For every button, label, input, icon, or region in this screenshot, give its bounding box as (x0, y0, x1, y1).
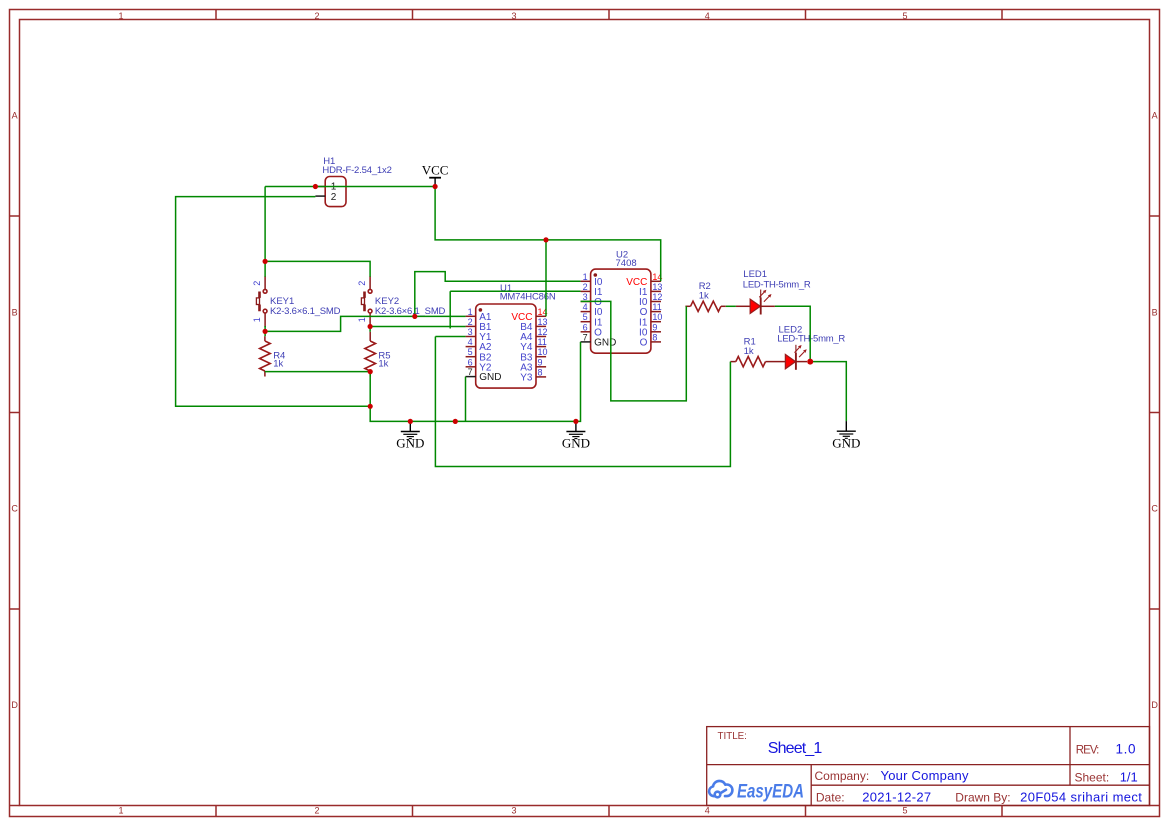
svg-text:4: 4 (705, 805, 710, 815)
svg-text:3: 3 (583, 292, 588, 302)
svg-text:9: 9 (652, 322, 657, 332)
svg-text:O: O (640, 338, 648, 349)
U2 pin 13 (I1) (639, 282, 662, 298)
svg-text:GND: GND (594, 338, 616, 349)
svg-text:2: 2 (331, 192, 337, 203)
svg-text:2: 2 (314, 11, 319, 21)
wire VCC rail top (265, 186, 435, 188)
svg-text:LED-TH-5mm_R: LED-TH-5mm_R (743, 279, 811, 290)
EasyEDA logo cloud (709, 781, 732, 797)
svg-text:4: 4 (705, 11, 710, 21)
U2 pin 12 (I0) (639, 292, 662, 308)
junction H1 pin2 rail to GND bus (368, 404, 373, 409)
wire branch to KEY2 pin2 (265, 261, 370, 276)
svg-text:7: 7 (583, 332, 588, 342)
junction at H1 pin1 / VCC wire (313, 184, 318, 189)
U2 pin 4 (I0) (581, 302, 603, 318)
svg-text:5: 5 (902, 805, 907, 815)
svg-text:2: 2 (468, 317, 473, 327)
wire U1 pin7 GND drop (465, 377, 467, 422)
svg-text:MM74HC86N: MM74HC86N (500, 292, 556, 303)
svg-text:12: 12 (652, 292, 662, 302)
svg-text:6: 6 (583, 322, 588, 332)
svg-text:1: 1 (252, 317, 262, 322)
ground GND3 (832, 421, 860, 450)
svg-text:1: 1 (357, 317, 367, 322)
resistor R5 (365, 332, 391, 377)
title block outline (707, 727, 1150, 806)
U2 pin 9 (I0) (639, 322, 661, 338)
U2 pin 7 (GND) (581, 332, 617, 348)
wire VCC symbol down to rail y240 and to U2 pin14 (435, 187, 661, 282)
frame ruler ticks left (10, 216, 20, 806)
ground GND1 (396, 421, 424, 450)
svg-text:1k: 1k (699, 290, 709, 301)
svg-text:3: 3 (511, 11, 516, 21)
U1 pin 5 (B2) (466, 347, 492, 363)
svg-text:8: 8 (652, 332, 657, 342)
U2 pin 6 (O) (581, 322, 603, 338)
svg-text:8: 8 (538, 367, 543, 377)
svg-text:EasyEDA: EasyEDA (737, 782, 804, 803)
U2 pin 11 (O) (640, 302, 662, 318)
wire node A to U2 pin1 (I0) (415, 272, 581, 317)
svg-text:5: 5 (468, 347, 473, 357)
U2 pin 3 (O) (581, 292, 603, 308)
svg-text:1k: 1k (378, 358, 388, 369)
svg-text:5: 5 (583, 312, 588, 322)
ground GND2 (562, 421, 590, 450)
H1 pin 2 (315, 195, 325, 197)
svg-text:K2-3.6×6.1_SMD: K2-3.6×6.1_SMD (270, 306, 341, 317)
svg-text:HDR-F-2.54_1x2: HDR-F-2.54_1x2 (322, 165, 392, 176)
svg-text:1.0: 1.0 (1116, 742, 1136, 757)
resistor R2 (685, 281, 725, 311)
svg-text:Sheet:: Sheet: (1075, 770, 1110, 784)
wire H1 pin2 to left rail (176, 197, 371, 407)
wire U1 pin3 (Y1) to R1 (435, 337, 730, 467)
svg-text:10: 10 (652, 312, 662, 322)
wire VCC branch to U1 pin14 (545, 240, 547, 316)
U1 pin 13 (B4) (520, 317, 547, 333)
svg-text:12: 12 (538, 327, 548, 337)
switch KEY2 (357, 276, 446, 326)
U1 pin 6 (Y2) (466, 357, 492, 373)
junction VCC rail to U1 (543, 237, 548, 242)
switch KEY1 (252, 276, 341, 327)
svg-text:1/1: 1/1 (1120, 770, 1138, 785)
junction KEY1 pin1 node (263, 329, 268, 334)
U2 pin 2 (I1) (581, 282, 603, 298)
svg-text:2: 2 (357, 281, 367, 286)
U1 pin 12 (A4) (520, 327, 547, 343)
svg-text:3: 3 (468, 327, 473, 337)
U1 pin 8 (Y3) (520, 367, 546, 383)
svg-text:2021-12-27: 2021-12-27 (862, 790, 931, 805)
U1 pin 14 (VCC) (511, 307, 547, 323)
U1 pin 7 (GND) (466, 367, 502, 383)
svg-text:Sheet_1: Sheet_1 (768, 740, 823, 757)
junction R4/R5 bottom (368, 369, 373, 374)
svg-text:1k: 1k (744, 346, 754, 357)
svg-text:11: 11 (538, 337, 547, 347)
svg-text:Y3: Y3 (520, 373, 533, 384)
svg-text:D: D (1151, 700, 1158, 710)
svg-text:7408: 7408 (616, 258, 637, 269)
svg-text:5: 5 (902, 11, 907, 21)
wire R4 bottom to R5 bottom (265, 371, 370, 373)
svg-text:REV:: REV: (1076, 745, 1100, 757)
svg-text:7: 7 (468, 367, 473, 377)
junction GND1 (408, 419, 413, 424)
U1 pin 4 (A2) (466, 337, 492, 353)
U2 pin 8 (O) (640, 332, 661, 348)
junction KEY branch (263, 259, 268, 264)
frame ruler ticks right (1150, 216, 1160, 806)
LED1 (736, 269, 811, 315)
resistor R4 (260, 336, 286, 376)
U2 pin 1 (I0) (581, 272, 603, 288)
junction GND2 (573, 419, 578, 424)
U2 pin 14 (VCC) (626, 272, 662, 288)
wire from VCC net down to KEY1 pin2 (264, 187, 266, 277)
connector H1 (322, 156, 392, 207)
svg-text:1: 1 (118, 805, 123, 815)
svg-text:C: C (11, 504, 18, 514)
svg-text:Date:: Date: (816, 790, 845, 804)
wire GND bus (370, 342, 580, 422)
junction KEY2 pin1 node (368, 324, 373, 329)
svg-text:1: 1 (583, 272, 588, 282)
IC U1 MM74HC86N (476, 283, 556, 388)
svg-text:20F054 srihari mect: 20F054 srihari mect (1020, 790, 1142, 805)
svg-text:1: 1 (468, 307, 473, 317)
svg-text:2: 2 (583, 282, 588, 292)
svg-text:VCC: VCC (422, 162, 449, 177)
svg-text:1k: 1k (273, 358, 283, 369)
LED2 (771, 325, 845, 370)
U2 pin 5 (I1) (581, 312, 603, 328)
svg-text:A: A (12, 111, 18, 121)
junction node A on U1 pin1 wire (412, 314, 417, 319)
U1 pin 9 (A3) (520, 357, 546, 373)
svg-text:9: 9 (538, 357, 543, 367)
wire LED2 node to GND3 (810, 362, 846, 422)
U1 pin 11 (Y4) (520, 337, 547, 353)
svg-text:10: 10 (538, 347, 548, 357)
U1 pin 3 (Y1) (466, 327, 492, 343)
svg-text:4: 4 (583, 302, 588, 312)
junction at VCC symbol (433, 184, 438, 189)
U1 pin 10 (B3) (520, 347, 547, 363)
wire KEY1 pin1 to R4 top (264, 326, 266, 336)
svg-text:2: 2 (314, 805, 319, 815)
svg-text:K2-3.6×6.1_SMD: K2-3.6×6.1_SMD (375, 306, 446, 317)
svg-text:6: 6 (468, 357, 473, 367)
wire KEY1 node to U1 pin1 (A1) (265, 316, 466, 331)
svg-text:GND: GND (832, 435, 860, 450)
wire KEY2 node down to R5 top (369, 327, 371, 332)
svg-text:GND: GND (479, 372, 501, 383)
svg-text:GND: GND (562, 436, 590, 451)
svg-text:Your Company: Your Company (881, 768, 970, 783)
power VCC symbol (422, 162, 449, 186)
svg-text:C: C (1151, 504, 1158, 514)
wire LED1 cathode to LED2 node (775, 306, 810, 361)
svg-text:D: D (11, 700, 18, 710)
IC U2 7408 (591, 250, 651, 354)
svg-text:GND: GND (396, 436, 424, 451)
wire R2 to LED1 anode (726, 305, 736, 307)
U1 pin 1 (A1) (466, 307, 492, 323)
frame ruler ticks top (216, 10, 1002, 20)
svg-text:4: 4 (468, 337, 473, 347)
svg-text:Drawn By:: Drawn By: (955, 790, 1010, 804)
svg-text:1: 1 (118, 11, 123, 21)
U1 pin 2 (B1) (466, 317, 492, 333)
svg-text:B: B (12, 307, 18, 317)
U2 pin 10 (I1) (639, 312, 662, 328)
wire KEY2 pin1 to U1 pin2 (B1) (370, 326, 466, 328)
junction GND bus mid (453, 419, 458, 424)
frame ruler ticks bottom (216, 806, 1002, 817)
junction LED2 cathode (807, 359, 813, 365)
svg-text:Company:: Company: (815, 769, 870, 783)
svg-text:LED-TH-5mm_R: LED-TH-5mm_R (777, 334, 845, 345)
svg-text:A: A (1152, 111, 1158, 121)
resistor R1 (730, 337, 771, 367)
svg-text:11: 11 (652, 302, 661, 312)
svg-text:13: 13 (652, 282, 662, 292)
svg-text:3: 3 (511, 805, 516, 815)
svg-text:13: 13 (538, 317, 548, 327)
svg-text:TITLE:: TITLE: (718, 731, 747, 742)
wire U1 pin2 net up to U2 pin2 (I1) (450, 291, 580, 328)
svg-text:2: 2 (252, 281, 262, 286)
wire U2 pin3 (O) through body to R2 (581, 301, 687, 401)
svg-text:B: B (1152, 307, 1158, 317)
H1 pin 1 (315, 186, 325, 188)
